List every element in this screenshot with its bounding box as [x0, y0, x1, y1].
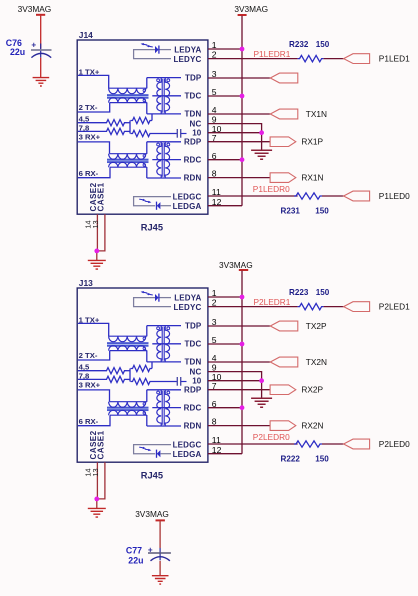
J14 RX transformer bottom rail wire	[147, 177, 181, 179]
J13 TX+ stub wire (pin 1)	[78, 323, 109, 336]
svg-text:LEDGC: LEDGC	[173, 193, 202, 202]
svg-text:LEDYC: LEDYC	[174, 303, 202, 312]
ground (CASE J13)	[88, 508, 106, 517]
capacitor C76 22u	[6, 38, 52, 77]
wire pin 3 J14	[208, 77, 270, 79]
J14 LED D-yellow (LEDYA/LEDYC) diode	[155, 46, 171, 54]
J13 RX transformer polarity dots	[157, 391, 170, 394]
J14 RX transformer polarity dots	[157, 143, 170, 146]
junction pin 10 / ground	[259, 378, 264, 383]
svg-text:P2LEDR1: P2LEDR1	[254, 297, 291, 307]
wire pin 12 J13 to 3V3MAG bus	[208, 453, 242, 455]
J13 LED D-yellow (LEDYA/LEDYC) diode	[155, 294, 171, 302]
svg-text:TDC: TDC	[184, 340, 201, 349]
svg-text:7,8: 7,8	[79, 371, 90, 380]
svg-text:TX1N: TX1N	[306, 109, 327, 119]
resistor R223 labels	[289, 288, 330, 297]
wire pin 4 J13	[208, 361, 270, 363]
svg-text:10: 10	[192, 376, 202, 385]
svg-text:R231: R231	[281, 206, 301, 215]
wire pin 9 J14 to ground	[208, 124, 262, 151]
port TX2N	[270, 357, 298, 367]
J13 RX- stub wire (pin 6)	[78, 415, 110, 426]
wire pin 7 J14	[208, 141, 270, 143]
J13 CASE pin numbers 14,13	[84, 468, 100, 476]
J14 RX transformer primary winding	[157, 142, 161, 178]
port P1LED0	[344, 191, 370, 201]
port RX1N	[270, 173, 296, 183]
J13 TX transformer polarity dots	[157, 327, 170, 330]
svg-text:RX2N: RX2N	[301, 421, 323, 431]
svg-text:CASE1: CASE1	[96, 430, 105, 459]
svg-text:P1LEDR1: P1LEDR1	[254, 49, 291, 59]
J13 termination resistor lower-right	[131, 378, 153, 384]
J13 left pin labels	[79, 315, 101, 425]
svg-text:P1LED1: P1LED1	[379, 54, 410, 64]
ground (pins 9,10 J14)	[251, 150, 272, 159]
svg-text:13: 13	[91, 220, 100, 228]
J14 LED D-green (LEDGC/LEDGA) emission arrows	[139, 199, 151, 203]
wire pin 9 J13 to ground	[208, 372, 262, 399]
svg-text:RJ45: RJ45	[141, 223, 163, 233]
svg-text:RDC: RDC	[184, 403, 202, 412]
J14 RX common-mode choke core	[107, 159, 149, 164]
J14 TX transformer core	[162, 79, 164, 113]
J14 RX choke to transformer wires	[146, 142, 148, 178]
wire R223 to port	[324, 306, 344, 308]
svg-text:P1LED0: P1LED0	[379, 191, 410, 201]
ground (below C76)	[33, 78, 50, 86]
svg-text:R232: R232	[289, 40, 309, 49]
J14 RX transformer centre tap wire	[152, 159, 181, 161]
J14 TX common-mode choke polarity dots	[143, 89, 146, 102]
port RX1P	[270, 137, 296, 147]
J14 TX- stub wire (pin 2)	[78, 103, 110, 112]
port RX2P	[270, 385, 296, 395]
wire pin 2 J14 net P1LEDR1	[208, 58, 298, 60]
wire pin 11 J13 net P2LEDR0	[208, 443, 298, 445]
svg-text:4,5: 4,5	[79, 363, 90, 372]
resistor R223 150	[298, 303, 324, 309]
J14 termination resistor (pins 4,5)	[78, 122, 105, 124]
svg-text:RX1P: RX1P	[301, 137, 323, 147]
port RX2N	[270, 421, 296, 431]
J13 RX transformer bottom rail wire	[147, 425, 181, 427]
junction pin 10 / ground	[259, 130, 264, 135]
J13 TX transformer bottom rail wire	[147, 361, 181, 363]
J13 RX transformer centre tap wire	[152, 407, 181, 409]
J14 CASE2 CASE1 labels	[89, 182, 106, 211]
J14 left pin labels	[79, 67, 101, 177]
J14 RX+ stub wire (pin 3)	[78, 142, 110, 154]
port P2LED0	[344, 439, 370, 449]
svg-text:TDN: TDN	[184, 110, 201, 119]
J13 RX common-mode choke top winding	[109, 402, 147, 408]
J13 internal capacitor (pin 10 row)	[152, 377, 187, 386]
J13 TX transformer primary winding	[157, 326, 161, 362]
power symbol 3V3MAG (middle right)	[219, 260, 253, 270]
svg-text:1 TX+: 1 TX+	[79, 67, 100, 76]
svg-text:2 TX-: 2 TX-	[79, 351, 98, 360]
svg-text:13: 13	[91, 468, 100, 476]
wire pin 11 J14 net P1LEDR0	[208, 195, 298, 197]
svg-text:150: 150	[316, 288, 330, 297]
J14 TX transformer bottom rail wire	[147, 113, 181, 115]
J13 pin numbers	[212, 288, 222, 455]
svg-text:C77: C77	[126, 546, 142, 556]
svg-text:22u: 22u	[128, 556, 143, 566]
J14 termination resistor upper-right	[131, 117, 153, 123]
J13 RX transformer secondary winding	[165, 390, 169, 426]
resistor R231 labels	[281, 206, 330, 215]
svg-text:LEDYA: LEDYA	[174, 46, 201, 55]
J14 TX transformer polarity dots	[157, 79, 170, 82]
resistor R232 150	[298, 55, 324, 61]
svg-text:NC: NC	[190, 119, 202, 128]
ground (CASE J14)	[88, 260, 106, 269]
J13 TX choke to transformer wires	[146, 326, 148, 362]
wire pin 12 J14 to 3V3MAG bus	[208, 205, 242, 207]
svg-text:7,8: 7,8	[79, 123, 90, 132]
svg-text:+: +	[31, 41, 36, 50]
svg-text:4,5: 4,5	[79, 115, 90, 124]
svg-text:TDC: TDC	[184, 92, 201, 101]
junction CASE pins J13	[94, 497, 99, 502]
svg-text:1 TX+: 1 TX+	[79, 315, 100, 324]
J13 TX common-mode choke bottom winding	[109, 346, 147, 351]
resistor R222 labels	[281, 454, 330, 463]
svg-text:TX2N: TX2N	[306, 357, 327, 367]
J13 CASE pins 14,13 wires	[97, 462, 105, 508]
svg-text:J13: J13	[79, 278, 93, 288]
J13 LED D-yellow (LEDYA/LEDYC) bracket wires	[134, 298, 171, 307]
J14 internal capacitor (pin 10 row)	[152, 129, 187, 138]
svg-text:TDN: TDN	[184, 358, 201, 367]
junction dots on 3V3MAG bus (J13)	[240, 295, 245, 411]
J13 LED D-green (LEDGC/LEDGA) emission arrows	[139, 447, 151, 451]
J13 RX transformer primary winding	[157, 390, 161, 426]
3V3MAG bus wire (J13)	[241, 271, 243, 454]
J14 pin numbers	[212, 40, 222, 207]
J13 TX transformer top rail wire	[147, 325, 181, 327]
svg-text:CASE1: CASE1	[96, 182, 105, 211]
svg-text:R222: R222	[281, 454, 301, 463]
J14 RX common-mode choke bottom winding	[109, 162, 147, 167]
J14 CASE pin numbers 14,13	[84, 220, 100, 228]
svg-text:RDC: RDC	[184, 155, 202, 164]
svg-text:2 TX-: 2 TX-	[79, 103, 98, 112]
ground (below C77)	[152, 576, 169, 584]
svg-text:RDP: RDP	[184, 137, 202, 146]
wire R231 to port	[322, 195, 344, 197]
J13 LED D-green (LEDGC/LEDGA) bracket wires	[134, 445, 171, 454]
svg-text:6 RX-: 6 RX-	[79, 417, 99, 426]
svg-text:LEDYA: LEDYA	[174, 294, 201, 303]
power symbol 3V3MAG (top left)	[18, 4, 52, 49]
connector J13 body outline	[77, 288, 208, 462]
wire pin 4 J14	[208, 113, 270, 115]
J14 TX common-mode choke bottom winding	[109, 98, 147, 103]
J13 termination resistor (pins 7,8)	[78, 378, 105, 380]
J13 RX common-mode choke bottom winding	[109, 410, 147, 415]
svg-text:150: 150	[316, 40, 330, 49]
svg-text:22u: 22u	[10, 47, 25, 57]
svg-text:6 RX-: 6 RX-	[79, 169, 99, 178]
capacitor C77 22u	[126, 545, 171, 575]
svg-text:P2LEDR0: P2LEDR0	[253, 432, 290, 442]
J14 TX choke to transformer wires	[146, 78, 148, 114]
svg-text:RDN: RDN	[184, 173, 202, 182]
J14 TX transformer centre tap wire	[152, 95, 181, 97]
svg-text:RX2P: RX2P	[301, 385, 323, 395]
J13 CASE2 CASE1 labels	[89, 430, 106, 459]
J13 TX transformer secondary winding	[165, 326, 169, 362]
3V3MAG bus wire (J14)	[241, 16, 243, 206]
resistor R232 labels	[289, 40, 330, 49]
J14 RX common-mode choke top winding	[109, 154, 147, 160]
resistor R231 150	[294, 193, 322, 199]
J13 RX choke to transformer wires	[146, 390, 148, 426]
J13 right pin labels	[173, 294, 202, 460]
svg-text:RDN: RDN	[184, 421, 202, 430]
svg-text:3V3MAG: 3V3MAG	[219, 260, 253, 270]
svg-text:TDP: TDP	[185, 74, 202, 83]
resistor R222 150	[294, 441, 322, 447]
J13 RX common-mode choke core	[107, 407, 149, 412]
port TX pin3 (unlabelled)	[270, 73, 298, 83]
svg-text:LEDGA: LEDGA	[173, 202, 202, 211]
svg-text:P1LEDR0: P1LEDR0	[253, 184, 290, 194]
J13 termination resistor upper-right	[131, 365, 153, 371]
J14 LED D-yellow (LEDYA/LEDYC) bracket wires	[134, 50, 171, 59]
svg-text:RX1N: RX1N	[301, 173, 323, 183]
J14 TX+ stub wire (pin 1)	[78, 75, 109, 88]
svg-text:J14: J14	[79, 30, 93, 40]
svg-text:P2LED1: P2LED1	[379, 302, 410, 312]
svg-text:TDP: TDP	[185, 322, 202, 331]
J14 termination resistor lower-right	[131, 130, 153, 136]
J13 TX transformer core	[162, 327, 164, 361]
J13 RX+ stub wire (pin 3)	[78, 390, 110, 402]
J13 LED D-yellow (LEDYA/LEDYC) emission arrows	[141, 291, 153, 295]
ground (pins 9,10 J13)	[251, 398, 272, 407]
svg-text:LEDGC: LEDGC	[173, 441, 202, 450]
wire pin 10 J13	[208, 380, 262, 382]
wire pin 10 J14	[208, 132, 262, 134]
J14 RX transformer top rail wire	[147, 141, 181, 143]
junction dots on 3V3MAG bus (J14)	[240, 47, 245, 163]
J14 RX transformer secondary winding	[165, 142, 169, 178]
J14 LED D-yellow (LEDYA/LEDYC) emission arrows	[141, 43, 153, 47]
J14 termination node vertical	[129, 121, 131, 134]
J14 TX transformer secondary winding	[165, 78, 169, 114]
svg-text:P2LED0: P2LED0	[379, 439, 410, 449]
J13 TX common-mode choke top winding	[109, 336, 147, 342]
J14 TX transformer primary winding	[157, 78, 161, 114]
port P1LED1	[344, 54, 370, 64]
port TX2P	[270, 321, 298, 331]
wire R232 to port	[324, 58, 344, 60]
J14 RX common-mode choke polarity dots	[143, 155, 146, 167]
J14 right pin labels	[173, 46, 202, 212]
wire R222 to port	[322, 443, 344, 445]
J13 TX common-mode choke polarity dots	[143, 337, 146, 350]
svg-text:3 RX+: 3 RX+	[79, 133, 101, 142]
port P2LED1	[344, 302, 370, 312]
svg-text:3V3MAG: 3V3MAG	[18, 4, 52, 14]
J13 termination node vertical	[129, 369, 131, 382]
J14 CASE pins 14,13 wires	[97, 214, 105, 260]
svg-text:3 RX+: 3 RX+	[79, 381, 101, 390]
J14 TX common-mode choke core	[107, 94, 149, 99]
svg-text:150: 150	[315, 206, 329, 215]
svg-text:3V3MAG: 3V3MAG	[135, 509, 169, 519]
wire pin 5 J14 to 3V3MAG bus	[208, 95, 242, 97]
J13 LED D-green (LEDGC/LEDGA) diode	[157, 450, 172, 458]
wire pin 6 J14 to 3V3MAG bus	[208, 159, 242, 161]
svg-text:TX2P: TX2P	[306, 321, 327, 331]
J13 TX transformer centre tap wire	[152, 343, 181, 345]
wire pin 1 J14 to 3V3MAG bus	[208, 48, 242, 50]
wire pin 8 J14	[208, 177, 270, 179]
svg-text:LEDGA: LEDGA	[173, 450, 202, 459]
J13 RX transformer core	[162, 391, 164, 425]
svg-text:R223: R223	[289, 288, 309, 297]
svg-text:NC: NC	[190, 367, 202, 376]
power symbol 3V3MAG (bottom)	[135, 509, 169, 548]
J13 RX transformer top rail wire	[147, 389, 181, 391]
connector J14 body outline	[77, 40, 208, 214]
J13 TX common-mode choke core	[107, 342, 149, 347]
svg-text:10: 10	[192, 128, 202, 137]
wire pin 2 J13 net P2LEDR1	[208, 306, 298, 308]
J14 TX transformer top rail wire	[147, 77, 181, 79]
wire pin 1 J13 to 3V3MAG bus	[208, 296, 242, 298]
svg-text:LEDYC: LEDYC	[174, 55, 202, 64]
wire pin 6 J13 to 3V3MAG bus	[208, 407, 242, 409]
svg-text:RJ45: RJ45	[141, 471, 163, 481]
J13 RX common-mode choke polarity dots	[143, 403, 146, 415]
J13 TX- stub wire (pin 2)	[78, 351, 110, 360]
J14 LED D-green (LEDGC/LEDGA) diode	[157, 202, 172, 210]
J14 LED D-green (LEDGC/LEDGA) bracket wires	[134, 197, 171, 206]
junction CASE pins J14	[94, 249, 99, 254]
svg-text:3V3MAG: 3V3MAG	[234, 4, 268, 14]
wire pin 5 J13 to 3V3MAG bus	[208, 343, 242, 345]
power symbol 3V3MAG (top right)	[234, 4, 268, 15]
J13 termination resistor (pins 4,5)	[78, 370, 105, 372]
svg-text:150: 150	[315, 454, 329, 463]
J14 RX- stub wire (pin 6)	[78, 167, 110, 178]
port TX1N	[270, 109, 298, 119]
wire pin 8 J13	[208, 425, 270, 427]
J14 RX transformer core	[162, 143, 164, 177]
wire pin 3 J13	[208, 325, 270, 327]
J14 termination resistor (pins 7,8)	[78, 130, 105, 132]
svg-text:RDP: RDP	[184, 385, 202, 394]
wire pin 7 J13	[208, 389, 270, 391]
J14 TX common-mode choke top winding	[109, 88, 147, 94]
